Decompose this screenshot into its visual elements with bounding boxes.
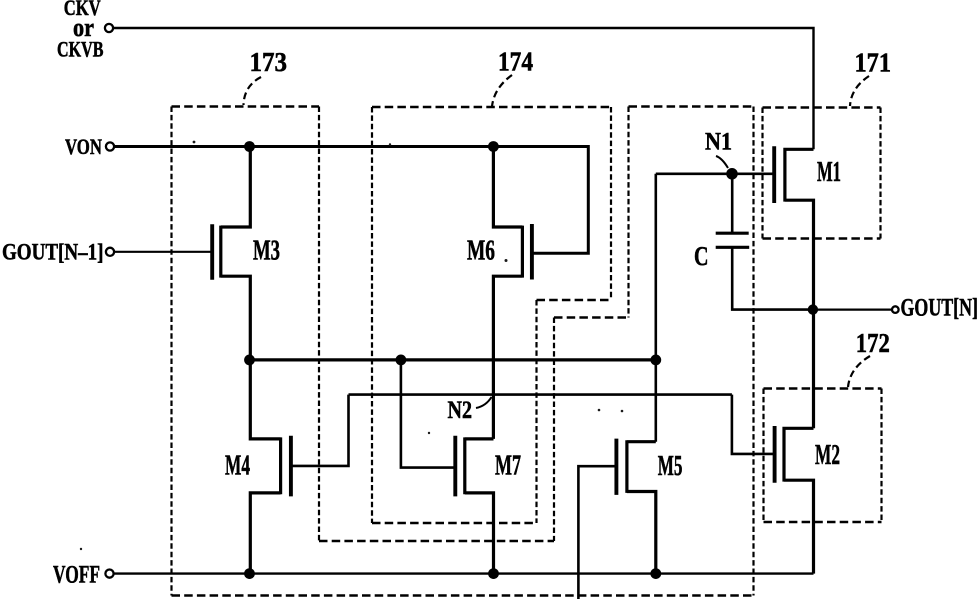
junction node row-M7 gate: [396, 355, 407, 366]
capacitor C: [716, 174, 813, 310]
svg-text:M6: M6: [467, 236, 495, 267]
wire M1 source / M2 drain / GOUT junction vertical: [812, 310, 815, 429]
svg-text:VON: VON: [65, 134, 102, 159]
wire node row N1: [250, 358, 656, 361]
transistor M6: [493, 147, 532, 439]
terminal GOUT[N]: [892, 306, 899, 313]
block 173 dashed outline (vertical edges): [172, 107, 754, 596]
svg-text:GOUT[N–1]: GOUT[N–1]: [2, 240, 104, 265]
svg-text:N2: N2: [448, 397, 473, 424]
block 172 dashed outline: [764, 389, 882, 523]
terminal CKV: [105, 24, 113, 32]
svg-text:M7: M7: [495, 451, 521, 482]
leader to 174: [492, 75, 512, 107]
svg-text:173: 173: [250, 46, 288, 77]
terminal VOFF: [105, 570, 113, 578]
transistor M5: [578, 439, 655, 599]
block 174 dashed outline (vertical edges): [372, 107, 611, 523]
svg-text:CKVB: CKVB: [57, 37, 104, 62]
block 174 dashed outline (horizontal edges): [372, 107, 611, 523]
wire N1 down to node row and M5 drain: [654, 174, 657, 442]
wire VON rail: [115, 147, 589, 254]
leader to N2: [476, 397, 492, 408]
junction VON-M6: [488, 141, 499, 152]
svg-text:C: C: [694, 241, 709, 271]
block 171 dashed outline: [763, 108, 881, 239]
leader to 172: [848, 356, 870, 387]
leader to 173: [244, 77, 262, 105]
wire M2 gate from N2: [732, 395, 775, 454]
junction node row-M5 drain: [650, 355, 661, 366]
svg-text:171: 171: [855, 47, 892, 78]
svg-text:M2: M2: [815, 440, 840, 471]
svg-text:M4: M4: [225, 451, 250, 482]
junction VOFF-M4: [244, 568, 255, 579]
node N1 junction: [726, 168, 738, 180]
svg-text:GOUT[N]: GOUT[N]: [901, 295, 979, 322]
junction VOFF-M5: [650, 568, 661, 579]
transistor M4: [250, 360, 348, 574]
transistor M7: [401, 360, 494, 574]
svg-text:M1: M1: [817, 157, 841, 188]
block 173 dashed outline (horizontal edges): [172, 107, 754, 596]
junction VON-M3: [244, 141, 255, 152]
svg-text:M3: M3: [253, 236, 280, 267]
transistor M3: [212, 147, 250, 360]
wire VOFF rail: [114, 572, 814, 574]
leader to N1: [716, 156, 728, 168]
junction node row-M3/M4: [244, 355, 255, 366]
svg-text:172: 172: [856, 327, 890, 358]
terminal VON: [106, 142, 114, 150]
wire N1 horizontal to M1 gate: [656, 173, 774, 176]
transistor M1: [774, 146, 813, 309]
terminal GOUT[N-1]: [106, 248, 114, 256]
svg-text:M5: M5: [658, 451, 683, 482]
svg-text:174: 174: [498, 46, 533, 77]
wire CKV net: terminal to M1 drain: [114, 28, 814, 149]
wire N2 row: [349, 393, 732, 396]
svg-text:N1: N1: [705, 129, 732, 156]
junction VOFF-M7: [488, 568, 499, 579]
transistor M2: [775, 426, 814, 574]
svg-text:VOFF: VOFF: [53, 562, 100, 589]
junction GOUT[N]: [808, 304, 818, 314]
wire GOUT[N] output: [813, 309, 892, 311]
wire GOUT[N-1] to M3 gate: [115, 251, 213, 253]
leader to 171: [850, 76, 869, 106]
scan speckles: [193, 141, 196, 144]
